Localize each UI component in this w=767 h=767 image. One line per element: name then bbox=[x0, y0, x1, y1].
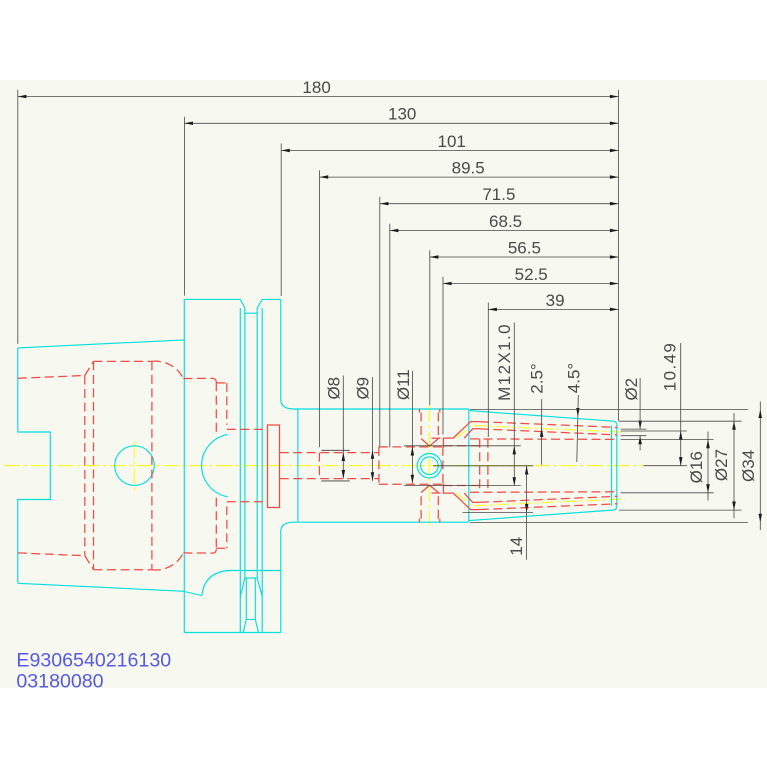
cavity step bottom bbox=[216, 547, 227, 549]
dim 14 line bbox=[526, 466, 528, 560]
radial hole top bbox=[419, 409, 439, 439]
V-groove edge line 4 bbox=[261, 308, 263, 633]
dia11 dim line bbox=[411, 371, 413, 483]
body bottom edge bbox=[294, 521, 469, 523]
svg-text:E9306540216130: E9306540216130 bbox=[16, 650, 171, 672]
shank bore chamfer bottom bbox=[85, 556, 94, 570]
dia16 dim line bbox=[707, 432, 709, 501]
thread relief wall 2 bbox=[487, 439, 489, 493]
svg-text:2.5°: 2.5° bbox=[528, 363, 547, 393]
HSK shank taper bottom edge bbox=[18, 583, 185, 591]
dia27 dim line bbox=[733, 413, 735, 518]
bore16 stub top bbox=[432, 437, 444, 439]
dia16 ext lines bbox=[621, 439, 714, 441]
tube seat wall bottom bbox=[226, 506, 228, 548]
cross hole inner circle bbox=[421, 457, 439, 475]
arrow right 39 bbox=[610, 308, 619, 312]
angle 2.5 leader bbox=[541, 399, 543, 465]
radial hole bottom bbox=[419, 493, 439, 523]
cavity step top bbox=[216, 382, 227, 384]
dia16 arrows bbox=[706, 440, 710, 449]
coolant run top lower bbox=[480, 429, 618, 435]
dimension line 52.5 bbox=[443, 283, 619, 285]
flange top edge with V-groove bbox=[184, 299, 280, 313]
cavity bottom corner arc bbox=[152, 553, 184, 570]
dia9 dim line bbox=[372, 377, 374, 481]
dimension line 101 bbox=[281, 149, 618, 151]
shank bore end wall bbox=[84, 376, 86, 556]
thread relief wall 1 bbox=[479, 439, 481, 493]
svg-text:180: 180 bbox=[302, 78, 330, 97]
flange right face lower bbox=[281, 522, 294, 632]
coolant entry bottom inner bbox=[464, 493, 480, 502]
coolant run top upper bbox=[480, 422, 618, 428]
cavity front wall bbox=[93, 361, 95, 569]
shank bore chamfer top bbox=[85, 361, 94, 375]
extension line 89.5 bbox=[319, 170, 321, 447]
arrow right 56.5 bbox=[610, 255, 619, 259]
pilot bore step bbox=[318, 453, 320, 479]
HSK shank taper top edge bbox=[18, 340, 185, 348]
flange right face upper bbox=[281, 299, 294, 409]
dim 10.49 line bbox=[680, 343, 682, 466]
nose cone top edge bbox=[469, 411, 617, 425]
cross hole outer circle bbox=[417, 454, 441, 478]
extension line right end bbox=[618, 90, 620, 421]
V-groove edge line 1 bbox=[239, 308, 241, 633]
coolant hole centerline top bbox=[457, 425, 626, 438]
dia11 arrows bbox=[411, 447, 415, 456]
drawing canvas band bbox=[0, 80, 767, 688]
bore 11 start wall bbox=[378, 447, 380, 484]
bore 11 bottom bbox=[379, 483, 443, 485]
extension line 56.5 bbox=[429, 250, 431, 405]
shank hole vertical centerline bbox=[134, 441, 136, 490]
svg-text:71.5: 71.5 bbox=[482, 185, 515, 204]
extension line 71.5 bbox=[379, 197, 381, 447]
arrow left 71.5 bbox=[380, 202, 389, 206]
dimension line 89.5 bbox=[320, 176, 619, 178]
coolant tube bore arc bbox=[202, 434, 228, 496]
angle 4.5 arrow bbox=[576, 408, 580, 417]
arrow left 180 bbox=[18, 95, 27, 99]
dimension line 56.5 bbox=[430, 256, 619, 258]
body junction line bbox=[297, 409, 299, 522]
svg-text:89.5: 89.5 bbox=[452, 159, 485, 178]
pilot bore top bbox=[280, 452, 379, 454]
svg-text:M12X1.0: M12X1.0 bbox=[495, 323, 514, 401]
extension line 39 bbox=[487, 303, 489, 437]
svg-text:Ø16: Ø16 bbox=[687, 451, 706, 483]
drive key slot top bbox=[245, 577, 257, 579]
svg-text:130: 130 bbox=[388, 105, 416, 124]
bore 11 end wall bbox=[442, 447, 444, 484]
arrow left 68.5 bbox=[390, 229, 399, 232]
dia9 ext lines bbox=[321, 449, 349, 451]
svg-text:68.5: 68.5 bbox=[489, 212, 522, 231]
svg-text:10.49: 10.49 bbox=[661, 342, 680, 392]
arrow right 68.5 bbox=[610, 229, 619, 232]
dia8 arrows bbox=[342, 452, 346, 461]
svg-text:Ø8: Ø8 bbox=[324, 377, 343, 400]
dia34 arrows bbox=[759, 409, 763, 418]
bore16 stub bottom bbox=[432, 492, 444, 494]
arrow right 180 bbox=[610, 95, 619, 99]
arrow right 101 bbox=[610, 149, 619, 153]
arrow left 52.5 bbox=[443, 282, 452, 285]
radial hole bottom point bbox=[421, 485, 438, 493]
coolant tube collar bbox=[268, 425, 280, 508]
shank index hole circle bbox=[115, 446, 155, 486]
drive slot shelf line bbox=[230, 570, 281, 572]
svg-text:Ø27: Ø27 bbox=[712, 449, 731, 481]
cavity top wall bbox=[94, 360, 152, 362]
extension line 68.5 bbox=[389, 224, 391, 448]
angle 2.5 arrow bbox=[540, 428, 544, 437]
svg-text:Ø9: Ø9 bbox=[354, 377, 373, 400]
arrow left 130 bbox=[184, 122, 193, 126]
arrow right 71.5 bbox=[610, 202, 619, 206]
cavity top ledge bbox=[183, 378, 216, 382]
tube seat wall top bbox=[226, 383, 228, 425]
axis dark overlay bbox=[433, 465, 533, 467]
dimension line 180 bbox=[18, 96, 619, 98]
dimension line 71.5 bbox=[380, 203, 619, 205]
main axis centerline bbox=[4, 465, 644, 467]
nose face chamfer line bbox=[611, 426, 613, 506]
dimension line 130 bbox=[184, 122, 618, 124]
shank bore top edge bbox=[18, 376, 85, 379]
dia2 dim line bbox=[639, 378, 641, 429]
svg-text:Ø11: Ø11 bbox=[394, 369, 413, 400]
dim 10.49 ext lines bbox=[621, 430, 687, 432]
coolant hole centerline bottom bbox=[457, 493, 626, 506]
M12 dim line bbox=[513, 323, 515, 486]
cavity right wall bottom bbox=[215, 498, 217, 550]
drive key bottom chamfer left bbox=[243, 619, 246, 632]
svg-text:56.5: 56.5 bbox=[508, 238, 541, 257]
shrink bore bottom bbox=[470, 491, 618, 494]
coolant entry top inner bbox=[464, 429, 480, 438]
thread major top bbox=[443, 445, 479, 447]
flange bottom edge bbox=[184, 632, 280, 634]
svg-text:03180080: 03180080 bbox=[16, 670, 103, 692]
flange left face bbox=[183, 299, 185, 632]
shank bore bottom edge bbox=[18, 553, 85, 556]
drive slot corner arc bbox=[202, 571, 230, 596]
svg-text:14: 14 bbox=[507, 537, 526, 556]
coolant entry bottom bbox=[443, 483, 480, 509]
svg-text:52.5: 52.5 bbox=[515, 265, 548, 284]
extension line 130 bbox=[183, 117, 185, 296]
cavity top corner arc bbox=[152, 361, 184, 378]
V-groove edge line 2 bbox=[244, 313, 246, 578]
cavity bottom ledge bbox=[183, 549, 216, 553]
dim 14 ext line bbox=[463, 512, 534, 514]
arrow left 56.5 bbox=[430, 255, 439, 259]
arrow right 52.5 bbox=[610, 282, 619, 285]
dim 14 arrows bbox=[525, 466, 529, 475]
svg-text:Ø34: Ø34 bbox=[739, 450, 758, 482]
angle 4.5 leader bbox=[577, 395, 579, 462]
arrow left 39 bbox=[488, 308, 497, 312]
coolant run bottom upper bbox=[480, 504, 618, 510]
dia9 arrows bbox=[371, 450, 374, 459]
drive key slot left chamfer bbox=[240, 578, 245, 597]
svg-text:101: 101 bbox=[438, 132, 466, 151]
coolant entry top bbox=[443, 422, 480, 448]
extension line 52.5 bbox=[442, 277, 444, 435]
extension line 101 bbox=[280, 144, 282, 297]
dia2 arrows bbox=[638, 421, 642, 430]
radial hole top point bbox=[421, 439, 438, 447]
coolant run bottom lower bbox=[480, 496, 618, 502]
body top edge bbox=[294, 408, 469, 410]
dim 10.49 arrows bbox=[679, 431, 683, 440]
drawbar bore bottom bbox=[227, 501, 268, 503]
thread major bottom bbox=[443, 485, 479, 487]
dimension line 39 bbox=[488, 308, 618, 310]
V-groove edge line 3 bbox=[256, 313, 258, 578]
bore 11 top bbox=[379, 446, 443, 448]
M12 ext lines bbox=[404, 445, 521, 447]
cavity bottom wall bbox=[94, 569, 152, 571]
shank left face with coupling notch bbox=[18, 348, 51, 583]
drive slot to taper edge bbox=[184, 592, 202, 596]
nose cone bottom edge bbox=[469, 506, 617, 520]
drive key inner wall left bbox=[245, 578, 247, 619]
shrink bore top bbox=[470, 438, 618, 441]
cavity mid wall bbox=[151, 361, 153, 569]
arrow right 130 bbox=[610, 122, 619, 126]
arrow right 89.5 bbox=[610, 175, 619, 179]
cavity right wall top bbox=[215, 382, 217, 433]
dia27 arrows bbox=[732, 421, 736, 430]
nose step face bbox=[468, 409, 470, 522]
arrow left 89.5 bbox=[320, 175, 329, 179]
svg-text:39: 39 bbox=[546, 291, 565, 310]
drive key slot right chamfer bbox=[257, 578, 262, 597]
dimension line 68.5 bbox=[390, 230, 619, 232]
dia34 ext lines bbox=[470, 408, 748, 410]
radial hole vertical centerline bbox=[428, 406, 430, 526]
arrow left 101 bbox=[281, 149, 290, 153]
pilot bore bottom bbox=[280, 478, 379, 480]
drive key slot bottom bbox=[246, 618, 255, 620]
svg-text:Ø2: Ø2 bbox=[622, 378, 641, 401]
dia34 dim line bbox=[759, 402, 761, 531]
svg-text:4.5°: 4.5° bbox=[565, 363, 584, 393]
nose face bbox=[616, 425, 618, 507]
dia8 dim line bbox=[342, 376, 344, 479]
dia2 ext lines bbox=[621, 428, 647, 430]
dia27 ext lines bbox=[619, 420, 742, 422]
M12 arrows bbox=[513, 446, 517, 455]
drive key bottom chamfer right bbox=[255, 619, 258, 632]
drawbar bore top bbox=[227, 428, 268, 430]
drive key inner wall right bbox=[254, 578, 256, 619]
extension line 180 bbox=[17, 90, 19, 344]
